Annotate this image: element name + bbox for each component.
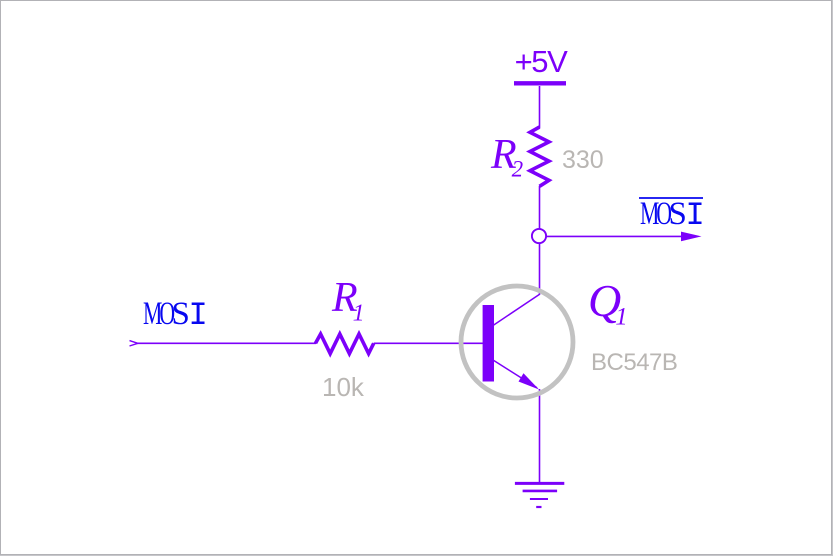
svg-text:S: S <box>669 196 687 232</box>
svg-text:+5V: +5V <box>515 44 569 79</box>
wire: +5V bar to R2 top <box>539 86 541 128</box>
svg-text:MO: MO <box>143 296 175 333</box>
resistor R1 <box>316 334 374 354</box>
wire: emitter to ground <box>539 389 541 483</box>
svg-text:I: I <box>686 197 705 234</box>
svg-text:I: I <box>189 297 208 334</box>
wire: R1 to base <box>374 342 483 344</box>
emitter arrowhead <box>519 373 540 389</box>
transistor body circle <box>461 286 573 398</box>
collector line <box>493 294 540 326</box>
net label /MOSI (overline) <box>639 196 705 234</box>
svg-text:MO: MO <box>640 196 672 233</box>
node junction <box>532 229 546 243</box>
transistor Q1 <box>461 286 573 398</box>
input port chevron <box>130 341 138 346</box>
wire: node to transistor collector <box>539 243 541 294</box>
output arrow <box>681 232 702 242</box>
base bar <box>483 305 494 382</box>
ground <box>515 483 564 507</box>
power symbol +5V <box>514 44 568 83</box>
wire: node to output arrow <box>546 235 684 237</box>
svg-text:10k: 10k <box>322 372 365 402</box>
emitter line <box>493 360 537 388</box>
svg-text:330: 330 <box>562 146 604 174</box>
wire: R2 bottom to node <box>539 186 541 230</box>
wire: input to R1 <box>137 342 316 344</box>
svg-text:BC547B: BC547B <box>591 349 677 376</box>
svg-text:S: S <box>172 296 190 332</box>
net label MOSI <box>143 296 208 334</box>
resistor R2 <box>530 127 549 186</box>
